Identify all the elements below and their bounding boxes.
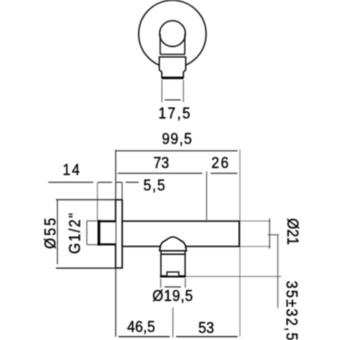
dimension line 99,5: [116, 150, 238, 152]
ring joint line: [161, 253, 185, 255]
svg-text:73: 73: [153, 154, 169, 172]
bell base band: [160, 251, 162, 254]
neck tube front view: [160, 34, 185, 54]
dimension line Ø19,5: [165, 286, 182, 288]
aerator insert: [167, 272, 179, 276]
threaded nipple G1/2: [99, 221, 116, 244]
flange circle front view (Ø55): [139, 0, 206, 67]
dimension line 46,5: [118, 336, 169, 338]
svg-text:14: 14: [63, 161, 82, 179]
svg-text:99,5: 99,5: [162, 130, 193, 148]
svg-text:G1/2": G1/2": [66, 212, 84, 254]
extension line 73/26: [206, 171, 208, 220]
wall face extension line: [115, 150, 117, 337]
dimension tick Ø55 top: [56, 199, 116, 201]
extension line 14 left: [96, 182, 98, 219]
nipple top edge: [98, 220, 116, 222]
outlet centre extension line: [172, 307, 174, 337]
outlet body front view: [159, 57, 185, 77]
bell of outlet side view: [160, 237, 187, 251]
nipple bottom edge: [98, 243, 116, 245]
extension line right 17,5: [182, 80, 184, 102]
extension lines Ø21: [241, 220, 271, 222]
dimension line 17,5: [165, 99, 181, 101]
dimension line 73: [118, 172, 203, 174]
nozzle mouth thick edge: [160, 275, 186, 277]
svg-text:46,5: 46,5: [127, 318, 155, 336]
dimension line 53: [176, 336, 237, 338]
dimension tick Ø55 bottom: [56, 267, 116, 269]
horizontal pipe side view: [122, 221, 239, 246]
dimension line 26: [211, 172, 238, 174]
svg-text:35±32,5: 35±32,5: [282, 281, 300, 340]
svg-text:5,5: 5,5: [143, 176, 166, 194]
dimension line 14 and 5,5: [48, 181, 138, 183]
svg-text:Ø55: Ø55: [42, 216, 60, 249]
extension line 5,5 right: [121, 182, 123, 199]
elbow ball circle front view: [160, 21, 186, 47]
wall flange side view: [116, 200, 123, 268]
svg-text:Ø21: Ø21: [283, 218, 301, 245]
dimension line Ø21: [269, 219, 271, 249]
extension lines Ø19,5: [160, 279, 162, 288]
svg-text:26: 26: [211, 154, 230, 172]
nipple thick left edge: [98, 220, 101, 246]
dimension line G1/2: [86, 221, 88, 245]
dimension line Ø55: [56, 200, 58, 264]
outlet nozzle side view: [161, 254, 185, 276]
dimension tick 35 top: [268, 234, 279, 236]
svg-text:17,5: 17,5: [158, 104, 191, 122]
pipe end extension line: [239, 149, 241, 336]
dimension ticks G1/2: [87, 220, 98, 222]
dimension line 35±32,5: [277, 235, 279, 308]
svg-text:Ø19,5: Ø19,5: [152, 287, 193, 305]
extension line left 17,5: [161, 80, 163, 102]
outlet mouth thick edge front view: [162, 77, 184, 79]
svg-text:53: 53: [198, 319, 214, 337]
extension line nozzle bottom for 35: [187, 275, 282, 277]
